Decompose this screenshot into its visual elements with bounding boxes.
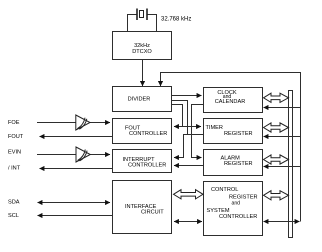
wire FOUT controller to TIMER double arrow [174, 126, 201, 128]
svg-text:and: and [232, 200, 241, 206]
crystal X1 plate right [146, 9, 148, 21]
wire bus tap ALARM [264, 166, 301, 168]
svg-text:CIRCUIT: CIRCUIT [141, 209, 164, 215]
svg-text:SYSTEM: SYSTEM [207, 208, 230, 214]
svg-text:FOUT: FOUT [8, 134, 24, 140]
svg-text:CONTROLLER: CONTROLLER [128, 162, 166, 168]
crystal X1 plate left [136, 9, 138, 21]
svg-text:/ INT: / INT [8, 166, 21, 172]
svg-text:SDA: SDA [8, 200, 20, 206]
bus double arrow CONTROL [264, 191, 289, 200]
wire ALARM to INTERRUPT [174, 165, 204, 167]
wire CLOCK tap down to ALARM [192, 105, 204, 158]
bus double arrow TIMER [264, 123, 289, 132]
wire CONTROL to feedback line double arrow [264, 221, 300, 223]
wire FOUT out [40, 136, 113, 138]
bus bar [289, 91, 293, 238]
wire DIVIDER branch B [172, 101, 188, 135]
box INTERRUPT CONTROLLER [113, 150, 172, 173]
svg-text:CONTROLLER: CONTROLLER [129, 131, 167, 137]
wire DTCXO to DIVIDER [142, 60, 144, 87]
svg-text:REGISTER: REGISTER [224, 131, 253, 137]
wire feedback from system controller to DIVIDER [161, 73, 301, 222]
svg-text:32.768 kHz: 32.768 kHz [161, 17, 191, 23]
svg-text:CONTROLLER: CONTROLLER [219, 214, 257, 220]
wire SCL in [38, 215, 113, 217]
box FOUT CONTROLLER [113, 119, 172, 144]
svg-text:REGISTER: REGISTER [224, 161, 253, 167]
wire DIVIDER to CLOCK [172, 95, 202, 97]
box CLOCK and CALENDAR [204, 88, 263, 113]
box CONTROL REGISTER and SYSTEM CONTROLLER [204, 182, 263, 236]
wire FOE in [37, 122, 76, 124]
crystal X1 wires [128, 15, 137, 32]
buffer EVIN [76, 147, 90, 162]
box 32kHz DTCXO [113, 32, 172, 60]
svg-text:SCL: SCL [8, 213, 19, 219]
wire TIMER to INTERRUPT [174, 135, 204, 158]
svg-text:EVIN: EVIN [8, 150, 21, 156]
crystal X1 body [140, 11, 144, 18]
buffer FOE [76, 115, 90, 130]
box ALARM REGISTER [204, 150, 263, 176]
svg-text:TIMER: TIMER [206, 125, 223, 131]
svg-text:CONTROL: CONTROL [211, 187, 238, 193]
wire SDA bidirectional [38, 202, 111, 204]
bus double arrow CLOCK [264, 93, 289, 102]
wire EVIN in [37, 154, 76, 156]
wire INTERFACE to CONTROL double arrow [174, 221, 202, 223]
wire bus tap TIMER [264, 136, 301, 138]
svg-text:CALENDAR: CALENDAR [215, 99, 245, 105]
wire DIVIDER branch C [172, 105, 183, 127]
box DIVIDER [113, 87, 172, 112]
wire bus tap CLOCK [264, 107, 301, 109]
svg-text:FOE: FOE [8, 120, 20, 126]
wire /INT out [40, 168, 113, 170]
box INTERFACE CIRCUIT [113, 181, 172, 234]
hollow double arrow INTERFACE to CONTROL [174, 190, 204, 199]
box TIMER REGISTER [204, 119, 263, 144]
bus double arrow ALARM [264, 155, 289, 164]
svg-text:DTCXO: DTCXO [132, 49, 152, 55]
svg-text:DIVIDER: DIVIDER [128, 97, 151, 103]
